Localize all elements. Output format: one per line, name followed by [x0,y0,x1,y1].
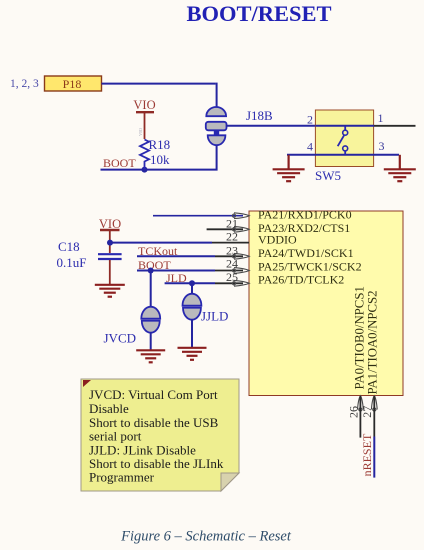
ground left of SW5 [273,155,305,181]
pin number 22 [226,230,238,244]
pin number 25 [226,270,238,284]
wire w5 PA25 / BOOT [137,270,243,272]
svg-text:26: 26 [346,406,360,418]
wire w6 PA26 / JLD [165,282,243,284]
pin number 26 (rotated) [346,406,360,418]
power VIO (top) [133,98,155,139]
wire w1 PA21 (blue) [153,215,243,217]
svg-text:TCKout: TCKout [138,244,178,258]
pin number 27 (rotated) [360,406,374,418]
svg-text:10k: 10k [150,152,170,167]
jumper JVCD [141,307,160,333]
svg-text:1: 1 [378,111,384,125]
label JVCD [104,331,137,346]
title BOOT/RESET [186,1,331,26]
IC row label PA26/TD/TCLK2 [258,272,344,286]
label JJLD [201,309,228,324]
net label BOOT (bottom) [138,258,171,272]
ground JVCD [136,350,165,362]
wire BOOT junction down to JVCD [150,271,152,309]
svg-text:Programmer: Programmer [89,470,155,485]
wire w2 PA23 stub (black) [207,228,243,230]
wire JJLD to ground [191,320,193,348]
wire J18B bottom to BOOT net [101,145,217,169]
IC vertical pin name PA1/TIOA0/NPCS2 [366,290,380,394]
svg-text:nRESET: nRESET [360,433,374,476]
svg-text:3: 3 [379,139,385,153]
pin number 23 [226,244,238,258]
junction at R18 bottom [142,167,148,173]
wire J18B middle to SW5 pin2 (passes through box drawn under) [227,125,375,127]
IC row label PA23/RXD2/CTS1 [258,221,350,235]
svg-text:serial port: serial port [89,429,142,444]
svg-text:1, 2, 3: 1, 2, 3 [10,78,39,90]
IC row label VDDIO [258,232,297,246]
wire pin27 stub (black) [373,396,375,437]
note sticky box [81,379,239,491]
wire w3 VDDIO (blue from VIO junction, black stub) [110,242,249,244]
bottom pin glyph 26 [358,396,364,411]
net label JLD [166,271,187,285]
svg-text:2: 2 [307,113,313,127]
label C18 [58,239,80,254]
wire vertical drop to J18B [216,83,218,107]
svg-text:PA1/TIOA0/NPCS2: PA1/TIOA0/NPCS2 [366,290,380,394]
connector P18 [45,76,102,91]
junction on JLD wire [189,280,195,286]
wire P18 to J18B (horizontal) [102,83,216,85]
svg-text:SW5: SW5 [315,168,341,183]
IC row label PA25/TWCK1/SCK2 [258,260,362,274]
svg-text:R18: R18 [149,137,171,152]
svg-text:PA0/TIOB0/NPCS1: PA0/TIOB0/NPCS1 [353,286,367,389]
label R18 [149,137,171,152]
svg-text:JLD: JLD [166,271,187,285]
pin glyph w5 [232,268,249,274]
svg-text:25: 25 [226,270,238,284]
svg-text:BOOT: BOOT [103,156,136,170]
svg-text:J18B: J18B [246,108,273,123]
IC row label PA21/RXD1/PCK0 [258,208,352,222]
tiny rotated net text [138,127,143,136]
wire pin4-pin3 through box [287,154,399,156]
switch contacts and lever [338,126,348,155]
svg-text:Disable: Disable [89,401,129,416]
pin glyph w2 [232,226,249,232]
value 10k [150,152,170,167]
wire JVCD to ground [150,333,152,351]
pin glyph w1 [232,213,249,219]
IC row label PA24/TWD1/SCK1 [258,246,354,260]
label SW5 [315,168,341,183]
pin glyph w4 [232,253,249,259]
svg-text:VIO: VIO [133,98,155,112]
pin 2 label [307,113,313,127]
pin1 black stub wire [374,125,416,127]
ground C18 [95,285,125,297]
bottom pin glyph 27 [371,396,377,411]
power VIO (bottom) [99,217,121,253]
junction VIO/VDDIO/C18 [107,240,113,246]
net label nRESET (rotated) [360,433,374,476]
svg-text:JVCD: JVCD [104,331,137,346]
switch SW5 box [315,110,373,167]
wire pin26 stub (black) [359,396,361,438]
svg-text:PA24/TWD1/SCK1: PA24/TWD1/SCK1 [258,246,354,260]
ground JJLD [178,348,207,360]
svg-text:VIO: VIO [99,217,121,231]
svg-text:22: 22 [226,230,238,244]
svg-text:PA26/TD/TCLK2: PA26/TD/TCLK2 [258,272,344,286]
capacitor C18 [98,254,122,259]
pins 1,2,3 label [10,78,39,90]
jumper J18B (3-pin header, shunt on 2-3) [206,107,227,145]
svg-text:27: 27 [360,406,374,418]
pin glyph w6 [232,280,249,286]
svg-text:C18: C18 [58,239,80,254]
svg-text:Figure 6 – Schematic – Reset: Figure 6 – Schematic – Reset [120,529,292,545]
svg-text:0.1uF: 0.1uF [57,255,87,270]
junction on BOOT wire [148,268,154,274]
svg-text:21: 21 [226,216,238,230]
svg-text:VIO: VIO [138,127,143,136]
svg-text:VDDIO: VDDIO [258,232,297,246]
wire JLD junction down to JJLD [191,283,193,295]
resistor R18 [140,140,149,170]
wire nRESET (blue) [373,437,375,478]
svg-text:JVCD: Virtual Com Port: JVCD: Virtual Com Port [89,387,218,402]
pin 4 label [307,140,313,154]
net label TCKout [138,244,178,258]
IC U? yellow body [249,211,403,396]
IC vertical pin name PA0/TIOB0/NPCS1 [353,286,367,389]
caption Figure 6 [120,529,292,545]
pin 3 label [379,139,385,153]
pin 1 label [378,111,384,125]
note text [89,387,224,485]
svg-text:24: 24 [226,257,238,271]
svg-text:JJLD: JJLD [201,309,228,324]
value 0.1uF [57,255,87,270]
pin number 21 [226,216,238,230]
svg-text:P18: P18 [63,77,82,91]
pin number 24 [226,257,238,271]
wire w4 PA24 / TCKout [137,255,243,257]
net label BOOT (top) [103,156,136,170]
label J18B [246,108,273,123]
svg-text:PA21/RXD1/PCK0: PA21/RXD1/PCK0 [258,208,352,222]
wire C18 bottom to ground [109,260,111,285]
ground right of SW5 [384,155,416,181]
svg-text:4: 4 [307,140,313,154]
jumper JJLD [183,294,202,320]
wire pin2 over box [315,125,374,127]
svg-text:BOOT/RESET: BOOT/RESET [186,1,331,26]
